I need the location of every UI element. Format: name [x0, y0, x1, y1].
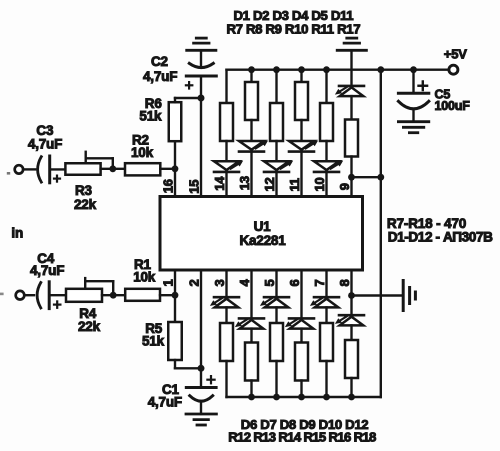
- svg-text:R7 R8 R9 R10 R11 R17: R7 R8 R9 R10 R11 R17: [227, 22, 361, 37]
- svg-text:D1-D12 - АП307В: D1-D12 - АП307В: [388, 229, 493, 244]
- svg-text:Ka2281: Ka2281: [239, 233, 286, 248]
- svg-text:51k: 51k: [139, 109, 162, 124]
- svg-text:4,7uF: 4,7uF: [30, 263, 64, 278]
- svg-text:C2: C2: [151, 54, 168, 69]
- svg-text:7: 7: [312, 279, 327, 286]
- svg-text:10k: 10k: [133, 270, 156, 285]
- svg-text:12: 12: [262, 177, 277, 191]
- svg-text:13: 13: [237, 176, 252, 190]
- svg-text:R12 R13 R14 R15 R16 R18: R12 R13 R14 R15 R16 R18: [228, 430, 376, 445]
- svg-text:4,7uF: 4,7uF: [28, 136, 62, 151]
- svg-text:15: 15: [187, 180, 202, 194]
- svg-text:in: in: [11, 226, 23, 241]
- svg-text:8: 8: [337, 279, 352, 286]
- svg-text:9: 9: [337, 183, 352, 190]
- svg-text:4,7uF: 4,7uF: [143, 69, 177, 84]
- svg-text:10: 10: [312, 177, 327, 191]
- svg-text:U1: U1: [254, 219, 272, 234]
- svg-text:6: 6: [287, 279, 302, 286]
- svg-text:14: 14: [212, 176, 227, 191]
- svg-text:4: 4: [237, 279, 252, 287]
- svg-text:5: 5: [262, 279, 277, 286]
- svg-text:22k: 22k: [74, 197, 97, 212]
- svg-text:R3: R3: [75, 183, 93, 198]
- svg-text:1: 1: [161, 279, 176, 286]
- svg-text:+5V: +5V: [444, 47, 467, 62]
- svg-text:100uF: 100uF: [435, 99, 471, 113]
- svg-text:11: 11: [287, 178, 302, 191]
- svg-text:10k: 10k: [131, 145, 154, 160]
- svg-text:22k: 22k: [78, 319, 101, 334]
- svg-text:4,7uF: 4,7uF: [148, 395, 182, 410]
- svg-text:2: 2: [187, 279, 202, 286]
- svg-text:3: 3: [212, 279, 227, 286]
- svg-text:16: 16: [161, 179, 176, 193]
- svg-text:51k: 51k: [142, 334, 165, 349]
